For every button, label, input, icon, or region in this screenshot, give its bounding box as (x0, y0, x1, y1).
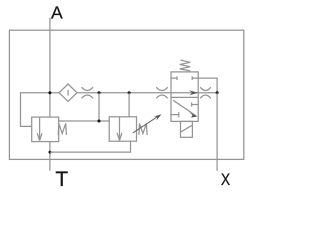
node N4 junction dot (216, 91, 219, 94)
orifice restrictor O2 (156, 87, 167, 98)
svg-text:A: A (51, 3, 63, 23)
valve U1 bottom square flow diagonal (173, 100, 197, 117)
valve U1 directional valve body (two positions) (171, 72, 198, 122)
wire: node N3 down to V2 top port (128, 93, 130, 117)
valve U1 spring (top) (180, 60, 191, 71)
wire: rail from U1 right port to node N4 (198, 92, 217, 94)
wire: rail from filter to valve U1 left port (77, 92, 171, 94)
valve V1 flow path arrow (37, 117, 42, 141)
valve V1 pressure valve body (32, 117, 59, 142)
wire: node N4 down to pilot port x (216, 93, 218, 171)
wire: rail from node A1 to filter (50, 92, 59, 94)
valve V2 adjustment arrow (133, 114, 162, 133)
manifold enclosure boundary (9, 30, 243, 159)
valve U1 bottom square blocked port bottom-left (171, 112, 179, 117)
orifice restrictor O1 (82, 87, 93, 98)
node N2 junction dot (98, 91, 101, 94)
valve U1 bottom square blocked port right (192, 103, 199, 107)
valve V2 flow path arrow (117, 117, 122, 141)
valve V2 spring (139, 123, 147, 134)
svg-text:X: X (221, 171, 230, 189)
wire: V1 right port to V2 left pilot port (59, 120, 109, 122)
wire: U1 right pilot port to node N4 (198, 78, 217, 93)
node N3 junction dot (128, 91, 131, 94)
orifice restrictor O3 (200, 87, 211, 98)
node N6 junction dot (49, 151, 52, 154)
node N1 junction dot (48, 91, 51, 94)
valve V1 spring (58, 123, 66, 134)
valve V2 pressure valve body (109, 117, 136, 141)
valve U1 drain box (181, 121, 193, 137)
valve U1 top square blocked port right (192, 76, 198, 80)
wire: pilot drop from node N2 to node N5 (98, 93, 100, 121)
filter F1 (diamond) (59, 84, 77, 101)
wire: pilot bypass from node A1 to V1 left pilot port (21, 93, 50, 127)
wire: port A line down to valve V1 top port (49, 18, 51, 117)
wire: V1 bottom port down to T port (49, 142, 51, 171)
node N5 junction dot (98, 120, 101, 123)
svg-text:T: T (55, 168, 68, 191)
valve U1 flow arrowhead (189, 90, 198, 95)
valve U1 rail flow line through top square (171, 92, 198, 94)
valve U1 top square blocked port left (171, 76, 177, 80)
wire: tank rail from node N6 to V2 bottom port (50, 141, 131, 152)
